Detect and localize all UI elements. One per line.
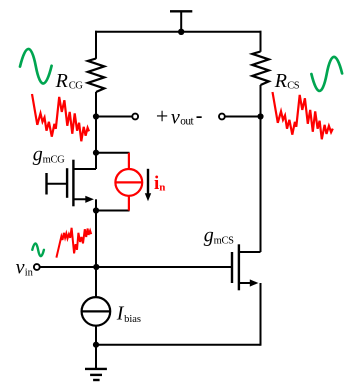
svg-text:v: v bbox=[16, 256, 25, 278]
wire left rail top bbox=[95, 31, 97, 59]
wire source corner to vin node bbox=[95, 199, 97, 297]
label i_n bbox=[154, 173, 165, 194]
svg-text:R: R bbox=[274, 70, 287, 92]
arrow source Q1 bbox=[85, 196, 94, 203]
arrow source Q2 bbox=[250, 279, 259, 286]
wire R_CS to vout node bbox=[260, 85, 262, 117]
transistor Q2 g_mCS bbox=[232, 244, 261, 290]
wire source node to noise source bbox=[96, 210, 130, 212]
wire R_CG to vout node bbox=[95, 92, 97, 117]
signal sine green left bbox=[20, 49, 52, 84]
wire vout right stub bbox=[225, 116, 261, 118]
noise waveform red mid bbox=[56, 228, 91, 258]
label v_in bbox=[16, 256, 34, 278]
svg-text:n: n bbox=[159, 181, 165, 193]
node vout right dot bbox=[257, 113, 263, 119]
wire source Q2 to bottom rail bbox=[260, 283, 262, 346]
svg-text:g: g bbox=[33, 143, 43, 165]
wire top rail bbox=[95, 31, 262, 33]
node drain dot bbox=[93, 150, 99, 156]
noise current source i_n red bbox=[115, 153, 142, 211]
node vout left dot bbox=[93, 113, 99, 119]
svg-text:+: + bbox=[156, 104, 168, 129]
svg-text:CS: CS bbox=[287, 81, 300, 92]
svg-text:v: v bbox=[171, 107, 180, 129]
junction supply node bbox=[178, 29, 184, 35]
terminal vin open circle bbox=[34, 264, 40, 270]
svg-text:in: in bbox=[25, 267, 34, 278]
terminal vout- open circle bbox=[219, 114, 225, 120]
wire vin to gate of Q2 bbox=[40, 266, 232, 268]
wire Ibias to ground node bbox=[95, 326, 97, 345]
wire right rail mid (vout node to drain Q2) bbox=[260, 117, 262, 253]
ground bbox=[85, 345, 107, 380]
svg-text:CG: CG bbox=[69, 80, 84, 91]
current source I_bias bbox=[82, 297, 111, 326]
signal sine green small vin bbox=[32, 243, 44, 256]
node source dot bbox=[93, 207, 99, 213]
node vin dot bbox=[93, 264, 99, 270]
resistor R_CS bbox=[252, 52, 268, 86]
label I_bias bbox=[116, 302, 141, 325]
transistor Q1 g_mCG bbox=[47, 160, 97, 207]
svg-text:out: out bbox=[180, 115, 194, 127]
label g_mCG bbox=[33, 143, 65, 165]
svg-text:R: R bbox=[55, 70, 68, 92]
svg-text:mCS: mCS bbox=[214, 236, 235, 247]
wire drain node to noise source bbox=[96, 152, 130, 154]
wire right rail top bbox=[260, 31, 262, 52]
wire bottom rail bbox=[96, 344, 261, 346]
label g_mCS bbox=[204, 225, 234, 247]
node ground dot bbox=[93, 342, 99, 348]
wire vout left stub bbox=[96, 116, 132, 118]
noise waveform red left bbox=[32, 94, 89, 141]
label R_CS bbox=[274, 70, 300, 92]
power supply symbol VDD bbox=[170, 11, 192, 32]
svg-text:bias: bias bbox=[124, 314, 141, 325]
svg-text:mCG: mCG bbox=[43, 154, 66, 165]
svg-text:-: - bbox=[196, 105, 203, 127]
label R_CG bbox=[55, 70, 84, 92]
terminal vout+ open circle bbox=[132, 114, 138, 120]
label + vout - bbox=[156, 104, 203, 129]
resistor R_CG bbox=[88, 59, 105, 93]
noise waveform red right bbox=[273, 92, 333, 139]
svg-text:g: g bbox=[204, 225, 214, 247]
signal sine green right bbox=[311, 57, 342, 91]
arrow i_n bbox=[147, 169, 149, 194]
wire left rail mid (vout node to drain) bbox=[95, 117, 97, 170]
